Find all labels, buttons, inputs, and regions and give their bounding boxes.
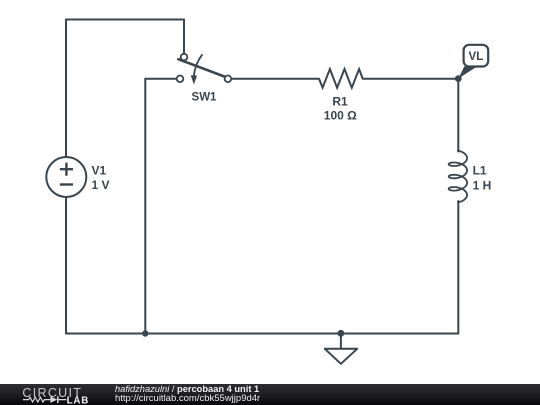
wire left rail vertical [144, 79, 146, 334]
resistor R1 [319, 69, 363, 88]
ground triangle [325, 349, 357, 364]
probe VL flag tail [458, 66, 477, 78]
switch terminal top [181, 54, 188, 61]
logo resistor-diode glyph [23, 396, 67, 403]
ground stub [340, 334, 342, 349]
wire top horizontal [66, 19, 184, 21]
wire node VL down to inductor [457, 79, 459, 152]
svg-text:LAB: LAB [67, 395, 90, 405]
wire switch right terminal to resistor [231, 78, 319, 80]
svg-text:100 Ω: 100 Ω [324, 109, 357, 123]
svg-text:R1: R1 [332, 95, 348, 109]
footer bar [0, 384, 540, 405]
wire inductor bottom to bottom rail [457, 201, 459, 334]
footer line 2 [115, 393, 260, 404]
junction dot left rail / bottom rail [142, 330, 148, 336]
probe VL flag box [464, 45, 489, 67]
switch SW1 [177, 54, 232, 85]
svg-text:L1: L1 [473, 163, 487, 177]
wire left vertical (top wire to V1 top) [65, 20, 67, 158]
svg-text:1 V: 1 V [92, 178, 110, 192]
wire V1 bottom to bottom rail [65, 197, 67, 334]
CircuitLab logo [0, 384, 100, 405]
switch blade [178, 59, 224, 76]
node VL junction dot [455, 75, 462, 82]
svg-text:SW1: SW1 [192, 92, 218, 104]
switch terminal right [225, 76, 232, 83]
switch terminal left throw [177, 76, 184, 83]
wire left throw to left rail [145, 78, 176, 80]
svg-text:VL: VL [469, 51, 484, 63]
wire switch top lead [183, 20, 185, 54]
voltage source V1 [46, 157, 86, 197]
svg-text:1 H: 1 H [473, 178, 492, 192]
junction dot ground [338, 330, 345, 337]
inductor L1 coil [449, 151, 467, 203]
footer line 1 [115, 384, 259, 394]
wire resistor to node VL [363, 78, 459, 80]
switch actuation arrow [194, 54, 203, 76]
wire bottom rail [66, 333, 458, 335]
svg-text:V1: V1 [92, 164, 107, 178]
